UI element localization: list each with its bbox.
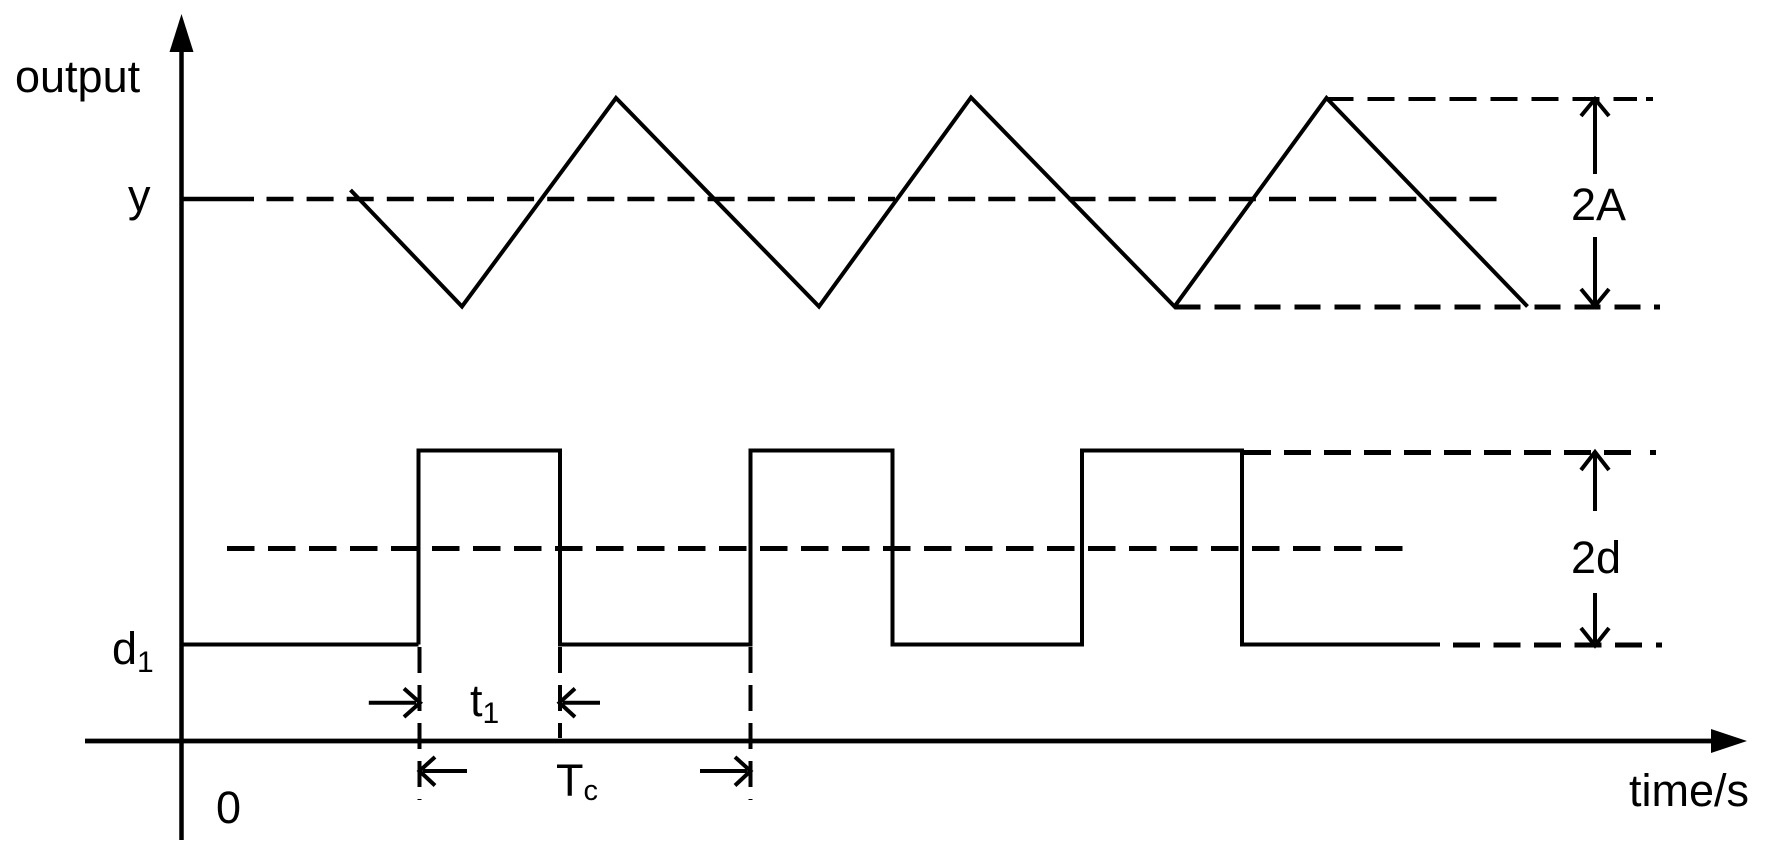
wire peak-level dashed line <box>1327 97 1638 101</box>
svg-text:y: y <box>128 170 151 221</box>
wire valley-level dashed line <box>1175 305 1646 310</box>
svg-text:2A: 2A <box>1571 179 1626 230</box>
svg-text:2d: 2d <box>1571 532 1621 583</box>
wire vertical dashed t1 left <box>418 647 422 800</box>
wire vertical dashed Tc right <box>749 647 753 800</box>
triangle wave <box>351 98 1528 307</box>
wire pulse-top dashed line <box>1244 450 1642 455</box>
svg-text:t1: t1 <box>470 675 499 730</box>
dimension arrow t1 right <box>560 689 601 718</box>
wire baseline dashed extension <box>1453 643 1645 648</box>
node y-level solid tick <box>182 197 254 202</box>
y-axis <box>170 14 194 840</box>
dimension arrow Tc right <box>700 757 751 786</box>
svg-text:time/s: time/s <box>1629 765 1749 816</box>
dimension arrow 2d down <box>1581 593 1609 646</box>
node pulse-top end dot <box>1650 450 1656 455</box>
svg-text:Tc: Tc <box>556 755 598 807</box>
dimension arrow 2A down <box>1581 237 1609 306</box>
svg-text:output: output <box>15 51 141 102</box>
node valley-level end dot <box>1654 305 1660 310</box>
pulse train <box>419 451 1441 645</box>
node baseline end dot <box>1656 643 1662 648</box>
svg-text:0: 0 <box>216 782 241 833</box>
dimension arrow 2A up <box>1581 99 1609 174</box>
dimension arrow 2d up <box>1581 452 1609 511</box>
x-axis <box>85 729 1747 753</box>
wire vertical dashed t1 right <box>558 647 562 738</box>
dimension arrow Tc left <box>420 757 468 786</box>
dimension arrow t1 left <box>369 689 420 718</box>
wire d1 baseline <box>182 643 419 647</box>
wire mid-level dashed line <box>227 546 1416 551</box>
node peak-level end dot <box>1646 97 1653 101</box>
wire y-level dashed line <box>267 197 1498 202</box>
svg-text:d1: d1 <box>112 623 154 679</box>
